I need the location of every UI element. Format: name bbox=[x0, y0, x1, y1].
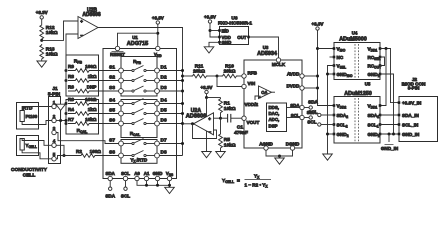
svg-text:C1: C1 bbox=[237, 125, 243, 131]
svg-text:S8: S8 bbox=[109, 150, 115, 156]
svg-text:GND_IN: GND_IN bbox=[381, 146, 399, 151]
pin VOUT (U3) bbox=[242, 116, 246, 120]
svg-text:+: + bbox=[80, 19, 83, 24]
svg-text:GND: GND bbox=[222, 40, 232, 45]
wire R8 to S2 bbox=[97, 80, 119, 82]
svg-text:D1: D1 bbox=[161, 65, 167, 71]
svg-text:VOUT: VOUT bbox=[247, 120, 260, 125]
node SCL net (U5 side) bbox=[321, 124, 334, 126]
pin SCL_IN (J2) bbox=[398, 123, 401, 126]
svg-text:RFB: RFB bbox=[248, 71, 258, 76]
wire SCL stub bbox=[125, 181, 127, 187]
svg-text:100Ω: 100Ω bbox=[85, 64, 97, 69]
wire U4 GND1 down bbox=[380, 74, 394, 134]
wire C1 to VOUT bbox=[231, 117, 242, 119]
svg-text:GND: GND bbox=[153, 171, 163, 176]
svg-text:MCLK: MCLK bbox=[272, 62, 286, 67]
wire J1 pin2 to bank ground bus bbox=[56, 120, 66, 122]
resistor bank RFB box bbox=[66, 55, 99, 96]
svg-text:8-PIN: 8-PIN bbox=[408, 86, 420, 91]
wire GND1 to J2 bbox=[380, 133, 399, 135]
svg-text:AD8606: AD8606 bbox=[82, 12, 101, 18]
internal DDS/DAC/ADC/DSP block (U3) bbox=[267, 103, 287, 132]
RTD box bbox=[17, 103, 39, 130]
op-amp OA (internal U3) bbox=[259, 86, 272, 99]
wire node to R1 bbox=[207, 97, 221, 99]
node E/D junction bbox=[209, 29, 212, 32]
svg-text:R7: R7 bbox=[68, 117, 74, 122]
svg-text:OUT: OUT bbox=[237, 35, 247, 40]
pin stub VDD bbox=[218, 36, 221, 39]
svg-text:1kΩ: 1kΩ bbox=[88, 107, 97, 112]
svg-text:−: − bbox=[209, 130, 212, 135]
resistor R13 10kΩ bbox=[40, 44, 44, 60]
svg-text:ADuM5000: ADuM5000 bbox=[339, 36, 367, 42]
switch group RFB box bbox=[121, 57, 157, 97]
svg-text:DDS,: DDS, bbox=[269, 105, 280, 110]
svg-text:D6: D6 bbox=[161, 118, 167, 124]
svg-text:SDA: SDA bbox=[308, 100, 318, 105]
wire D1 to bus bbox=[159, 70, 182, 72]
svg-text:VIN: VIN bbox=[248, 81, 256, 86]
wire bank ground bus bbox=[65, 104, 67, 124]
svg-text:J1: J1 bbox=[52, 86, 58, 92]
wire A0 to gnd bus bbox=[137, 181, 170, 186]
wire 3.3V to R12 bbox=[41, 19, 43, 24]
svg-text:NC: NC bbox=[337, 55, 344, 60]
svg-text:SDA: SDA bbox=[106, 171, 116, 176]
svg-text:R3: R3 bbox=[68, 97, 74, 102]
svg-text:R5: R5 bbox=[224, 137, 230, 143]
svg-text:S2: S2 bbox=[109, 75, 115, 81]
pin RESET (U1) bbox=[115, 46, 119, 50]
wire U2A output to bus bbox=[183, 123, 194, 125]
pin GNDISO / GND1 (U4) bbox=[333, 73, 336, 76]
pin stub GND bbox=[218, 41, 221, 44]
svg-text:E/D: E/D bbox=[222, 29, 229, 34]
node SDA net (U5 side) bbox=[321, 114, 334, 116]
svg-text:R9: R9 bbox=[68, 64, 74, 69]
resistor Pt100 bbox=[20, 111, 24, 122]
pin VIN (U3) bbox=[242, 84, 246, 88]
svg-text:S6: S6 bbox=[109, 118, 115, 124]
wire GND2 to gnd bus bbox=[328, 133, 335, 135]
svg-text:VDD/2: VDD/2 bbox=[245, 102, 259, 107]
node bank bus R4 bbox=[65, 112, 68, 115]
node SDA net bbox=[109, 187, 112, 190]
svg-text:R2: R2 bbox=[76, 149, 82, 154]
wire U2B output to switch bus bbox=[98, 28, 183, 156]
wire junction to VIN bbox=[217, 76, 242, 87]
net flag GND_IN bbox=[388, 134, 390, 142]
ground (R13) bbox=[37, 61, 47, 67]
wire D3 to bus bbox=[159, 90, 182, 92]
wire U2A V- to ground bbox=[206, 131, 208, 152]
wire bus to VISO bbox=[316, 47, 319, 50]
svg-text:−: − bbox=[80, 33, 83, 38]
ground (U3) bbox=[275, 158, 285, 164]
wire 3.3V rail to RESET bbox=[118, 33, 158, 46]
svg-text:GND_IN: GND_IN bbox=[402, 132, 420, 137]
resistor R12 10kΩ bbox=[40, 24, 44, 40]
pin SDA_IN (J2) bbox=[398, 114, 401, 117]
wire NC stub bbox=[330, 56, 335, 58]
svg-text:R11: R11 bbox=[195, 63, 204, 69]
node U2A feedback tap bbox=[191, 122, 194, 125]
svg-text:20kΩ: 20kΩ bbox=[224, 69, 236, 75]
svg-text:SDA_IN: SDA_IN bbox=[402, 113, 420, 118]
pin VISO / VDD1 (U4) bbox=[333, 47, 336, 50]
wire R13 to ground bbox=[41, 60, 43, 61]
wire DVDD to bus bbox=[304, 87, 317, 89]
ground (J1 pin2) bbox=[60, 110, 62, 121]
wire AVDD to bus bbox=[304, 75, 317, 77]
switch group RCAL box bbox=[121, 100, 157, 138]
wire GNDISO to gnd bus bbox=[328, 73, 335, 75]
wire 3.3V to E/D bbox=[210, 23, 220, 37]
ground (isolated side) bbox=[323, 154, 333, 160]
wire R5 to ground bbox=[220, 149, 222, 152]
svg-text:ADuM1250: ADuM1250 bbox=[344, 91, 372, 97]
wire SDA1 to J2 bbox=[380, 114, 399, 116]
svg-text:D4: D4 bbox=[161, 98, 167, 104]
svg-text:+3.3V_IN: +3.3V_IN bbox=[402, 101, 422, 106]
wire VSS to ground bbox=[169, 181, 171, 188]
wire D7 to bus bbox=[159, 143, 182, 145]
node bank bus R3 bbox=[65, 102, 68, 105]
svg-text:U3: U3 bbox=[263, 45, 269, 50]
wire J1 pin5 to R2 net bbox=[56, 156, 64, 159]
node divider junction bbox=[40, 39, 43, 42]
svg-text:1kΩ: 1kΩ bbox=[88, 74, 97, 79]
ground (U2A) bbox=[202, 152, 212, 158]
svg-text:+3.3V: +3.3V bbox=[201, 85, 213, 90]
svg-text:+: + bbox=[208, 117, 211, 122]
pin AVDD (U3) bbox=[300, 74, 304, 78]
wire YCELL to J1 pin4 bbox=[22, 139, 52, 146]
svg-text:A1: A1 bbox=[144, 171, 150, 176]
wire D4 to bus bbox=[159, 103, 182, 105]
wire R7 to S6 bbox=[97, 123, 119, 125]
svg-text:D3: D3 bbox=[161, 85, 167, 91]
svg-text:DSP: DSP bbox=[269, 123, 278, 128]
resistor YCELL element bbox=[20, 139, 24, 151]
resistor R5 10kΩ bbox=[220, 118, 222, 133]
wire J1 pin4 to R2 net bbox=[56, 145, 64, 155]
pin SDA (U3) bbox=[300, 105, 304, 109]
svg-text:U4: U4 bbox=[352, 30, 358, 35]
pin VDD (U1) bbox=[156, 46, 160, 50]
wire D6 to bus bbox=[159, 123, 182, 125]
pin stub OUT bbox=[247, 36, 250, 39]
wire U4 VDD1 down to J2 bbox=[380, 49, 399, 103]
wire SCL1 to J2 bbox=[380, 124, 399, 126]
wire U2B -IN feedback bbox=[66, 34, 78, 91]
svg-text:R4: R4 bbox=[68, 107, 74, 112]
wire J1 pin3 to S7 bbox=[56, 133, 118, 144]
svg-text:SCL: SCL bbox=[307, 120, 316, 125]
svg-text:+3.3V: +3.3V bbox=[204, 14, 216, 19]
pin RFB (U3) bbox=[242, 74, 246, 78]
svg-text:SCL_IN: SCL_IN bbox=[402, 123, 419, 128]
svg-text:10kΩ: 10kΩ bbox=[85, 117, 97, 122]
wire AGND/DGND to ground bbox=[266, 150, 293, 156]
svg-text:ADC,: ADC, bbox=[269, 117, 280, 122]
svg-text:CONDUCTIVITY: CONDUCTIVITY bbox=[11, 167, 48, 173]
svg-text:S3: S3 bbox=[109, 85, 115, 91]
svg-text:R1: R1 bbox=[224, 101, 230, 107]
wire GND to ground bbox=[209, 42, 220, 47]
wire D8 to bus bbox=[159, 155, 182, 157]
wire SDA stub bbox=[109, 181, 111, 187]
wire DDS to SDA bbox=[287, 107, 300, 109]
wire D2 to bus bbox=[159, 80, 182, 82]
wire 3.3V bus bbox=[318, 30, 335, 105]
svg-text:S5: S5 bbox=[109, 108, 115, 114]
svg-text:S7: S7 bbox=[109, 138, 115, 144]
wire R1 to +IN node bbox=[220, 114, 222, 118]
pin GND_IN (J2) bbox=[398, 133, 401, 136]
pin DVDD (U3) bbox=[300, 86, 304, 90]
svg-text:U5: U5 bbox=[365, 82, 371, 87]
svg-text:AD5934: AD5934 bbox=[257, 51, 277, 57]
wire 3.3V to node bbox=[206, 94, 208, 98]
svg-text:SCL: SCL bbox=[121, 171, 130, 176]
svg-text:+3.3V: +3.3V bbox=[152, 15, 164, 20]
wire R6 to S3 bbox=[97, 90, 119, 92]
resistor bank RCAL box bbox=[66, 100, 99, 135]
wire U2A feedback loop bbox=[193, 124, 217, 139]
pin MCLK (U3) bbox=[276, 58, 280, 62]
wire OUT to MCLK bbox=[249, 37, 279, 58]
pin GND2 / GND1 (U5) bbox=[333, 133, 336, 136]
svg-text:ADG715: ADG715 bbox=[127, 41, 148, 47]
switch group YX/RTD box bbox=[121, 140, 157, 164]
node bank bus R7 bbox=[65, 122, 68, 125]
svg-text:U6: U6 bbox=[231, 15, 237, 21]
wire E/D pin bbox=[210, 30, 220, 32]
wire R12 to node bbox=[41, 39, 43, 41]
svg-text:DVDD: DVDD bbox=[286, 84, 300, 89]
wire 3.3V stem to VDD bbox=[157, 24, 159, 46]
svg-text:DNP: DNP bbox=[87, 85, 97, 90]
svg-text:DAC,: DAC, bbox=[269, 111, 280, 116]
wire YCELL to J1 pin5 bbox=[22, 150, 52, 159]
conductivity cell YCELL box bbox=[17, 136, 39, 156]
svg-text:10kΩ: 10kΩ bbox=[46, 52, 58, 58]
pin NC / RCSEL (U4) bbox=[333, 56, 336, 59]
svg-text:+3.3V: +3.3V bbox=[36, 10, 48, 15]
resistor R1 10kΩ bbox=[219, 98, 223, 115]
wire Pt100 to J1 pin2 bbox=[22, 121, 52, 125]
pin SCL2 / SCL1 (U5) bbox=[333, 123, 336, 126]
svg-text:20kΩ: 20kΩ bbox=[193, 69, 205, 75]
svg-text:10kΩ: 10kΩ bbox=[46, 30, 58, 36]
svg-text:470nF: 470nF bbox=[234, 130, 248, 136]
svg-text:S4: S4 bbox=[109, 98, 115, 104]
wire OA out stub bbox=[272, 91, 276, 93]
svg-text:U1: U1 bbox=[132, 35, 138, 40]
node SCL net (U3 side) bbox=[304, 117, 309, 119]
svg-text:SDA: SDA bbox=[105, 194, 115, 199]
ground (R5) bbox=[216, 152, 226, 158]
pin +3.3V_IN (J2) bbox=[398, 101, 401, 104]
wire bus to R11 bbox=[181, 75, 184, 78]
svg-text:CELL: CELL bbox=[23, 173, 36, 179]
wire R10 to RFB pin bbox=[238, 75, 242, 77]
wire VSEL to gnd bus bbox=[328, 66, 335, 155]
node SCL net bbox=[124, 187, 127, 190]
svg-text:/RTD: /RTD bbox=[137, 158, 148, 163]
wire OA + stub VDD/2 bbox=[255, 96, 259, 100]
wire R4 to S5 bbox=[97, 113, 119, 115]
svg-text:SCL: SCL bbox=[121, 194, 130, 199]
wire Pt100 to J1 pin1 bbox=[22, 107, 52, 111]
wire divider to U2B +IN bbox=[42, 21, 78, 40]
pin SDA2 / SDA1 (U5) bbox=[333, 114, 336, 117]
node feedback bus to R8 bbox=[65, 79, 68, 82]
node 3.3V rail junction bbox=[156, 32, 159, 35]
capacitor C1 470nF bbox=[221, 117, 228, 119]
svg-text:+3.3V: +3.3V bbox=[312, 21, 324, 26]
svg-text:R10: R10 bbox=[225, 63, 234, 69]
wire U2A V+ supply stub bbox=[206, 98, 208, 118]
wire A1 to gnd bus bbox=[146, 181, 148, 186]
svg-text:R6: R6 bbox=[68, 85, 74, 90]
pin stub E/D bbox=[218, 29, 221, 32]
svg-text:AVDD: AVDD bbox=[287, 72, 300, 77]
svg-text:10kΩ: 10kΩ bbox=[224, 106, 236, 112]
svg-text:FXO-HC536R-1: FXO-HC536R-1 bbox=[218, 21, 252, 27]
svg-text:D8: D8 bbox=[161, 150, 167, 156]
svg-text:D5: D5 bbox=[161, 108, 167, 114]
svg-text:S1: S1 bbox=[109, 65, 115, 71]
svg-text:10kΩ: 10kΩ bbox=[224, 143, 236, 149]
svg-text:D2: D2 bbox=[161, 75, 167, 81]
pin VSEL / RCOUT (U4) bbox=[333, 64, 336, 67]
svg-text:A0: A0 bbox=[134, 171, 140, 176]
wire +IN to node bbox=[214, 117, 221, 119]
node bias junction bbox=[205, 96, 208, 99]
svg-text:SDA: SDA bbox=[307, 110, 317, 115]
node SDA net (U3 side) bbox=[304, 107, 309, 109]
pin SCL (U3) bbox=[300, 115, 304, 119]
ground (U1 VSS) bbox=[165, 187, 175, 193]
wire R9 to S1 bbox=[97, 70, 119, 72]
wire GND to gnd bus bbox=[157, 181, 159, 186]
svg-text:Pt100: Pt100 bbox=[26, 114, 38, 119]
svg-text:=: = bbox=[237, 179, 240, 184]
node feedback bus to R9 bbox=[65, 69, 68, 72]
ground (U6) bbox=[204, 47, 214, 53]
wire RCSEL-RCOUT jumper bbox=[380, 57, 385, 66]
pin VDD2 / VDD1 (U5) bbox=[333, 104, 336, 107]
wire D5 to bus bbox=[159, 113, 182, 115]
wire R3 to S4 bbox=[97, 103, 119, 105]
wire DDS to SCL bbox=[287, 117, 300, 119]
svg-text:OA: OA bbox=[261, 90, 267, 95]
node pin2 junction bbox=[59, 119, 62, 122]
node R11/R10 junction bbox=[208, 75, 217, 77]
svg-text:D7: D7 bbox=[161, 138, 167, 144]
svg-text:100Ω: 100Ω bbox=[85, 97, 97, 102]
svg-text:R8: R8 bbox=[68, 74, 74, 79]
wire R2 to S8 bbox=[98, 155, 119, 157]
